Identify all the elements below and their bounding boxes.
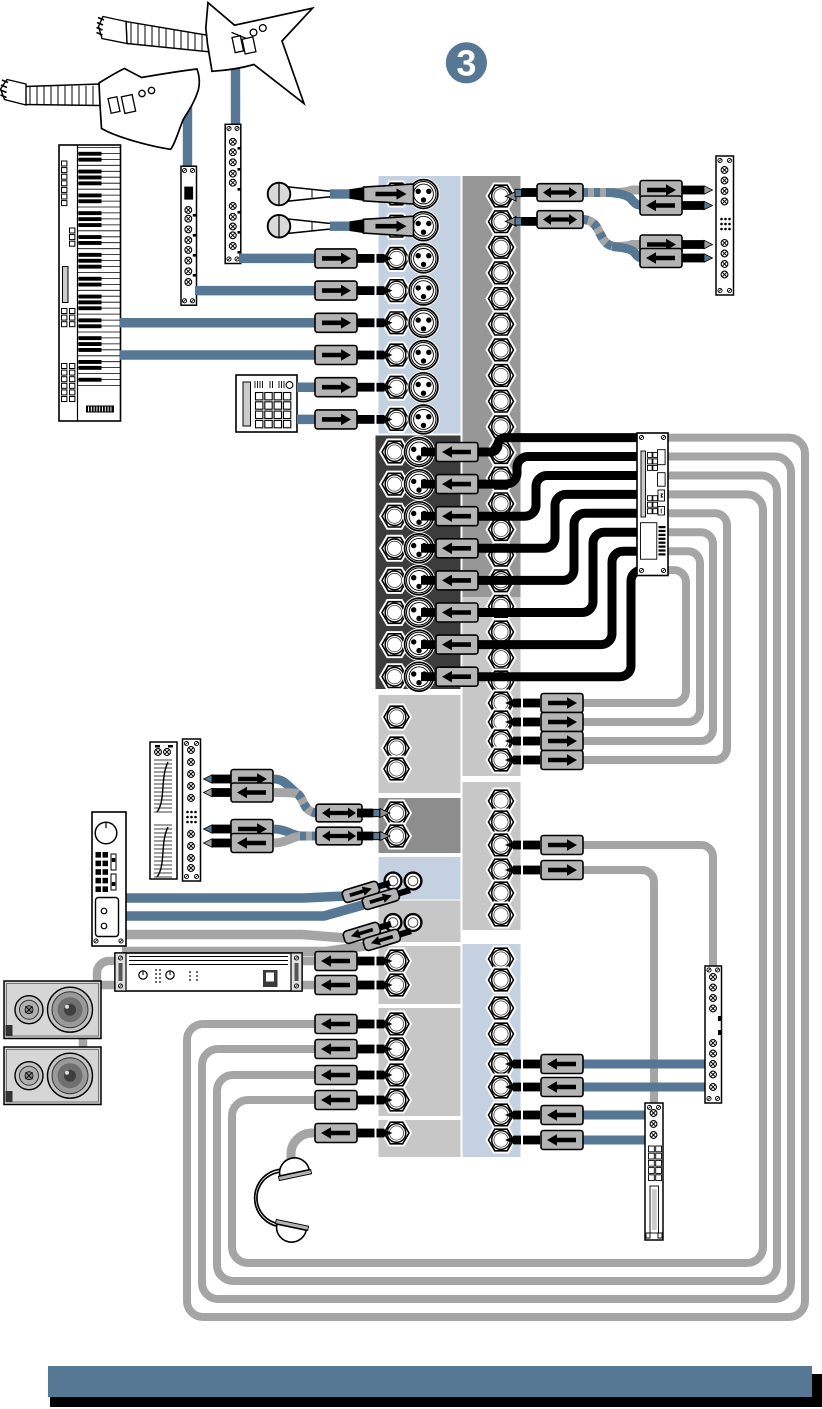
guitar effects rack unit 1 (for star guitar)	[225, 124, 241, 263]
mixer right column: channel line inputs (gray)	[463, 176, 521, 597]
studio monitor speaker 2	[4, 1047, 101, 1105]
unit 2 output cable to channel 4	[195, 286, 320, 296]
microphone 1 cable and XLR connector	[330, 189, 350, 198]
power amplifier (rack)	[115, 953, 302, 991]
patchbay send/return plug pair row 1	[681, 186, 705, 195]
main out jacks	[381, 948, 412, 975]
submaster output cables (blue) to outboard	[582, 1064, 706, 1140]
rack compressor unit (knobs)	[183, 739, 201, 881]
control room out jacks	[381, 1011, 412, 1038]
aux return jacks (left column light gray)	[381, 704, 412, 731]
main out cables to power amp	[83, 961, 318, 1048]
graphic EQ outboard unit (right, bottom)	[645, 1103, 663, 1240]
channel line input jacks (right gray column)	[485, 183, 516, 210]
unit 1 output cable to channel 3	[239, 254, 320, 264]
keyboard output cables	[120, 318, 318, 328]
MIDI keyboard	[59, 145, 121, 421]
EQ send/return plugs group A	[212, 775, 236, 784]
mixer left column: main out section	[379, 946, 461, 1004]
channel 1-2 line in to patchbay: jack stubs	[506, 192, 517, 202]
gray return cables: multitrack outputs to tape return jacks (long loop)	[187, 438, 805, 1317]
monitor patchbay (right, below)	[705, 966, 722, 1103]
mixer right column: submaster jacks (light blue)	[463, 944, 521, 1157]
gray cables: multitrack outputs 5-8 to tape send plugs	[582, 570, 686, 703]
mixer left column: mic/line input section (light blue)	[379, 176, 461, 434]
footer bar	[50, 1374, 822, 1407]
main out plugs	[315, 952, 393, 971]
RCA plugs tape out	[342, 918, 393, 945]
RCA plugs tape in	[341, 877, 392, 904]
tape output jacks and XLRs 1-8 (dark section)	[379, 439, 410, 466]
tape deck RCA cables (gray, mixer tape out to deck)	[122, 935, 365, 952]
tape output plugs (dark section)	[421, 443, 478, 462]
drum machine	[236, 375, 297, 432]
guitar effects rack unit 2 (for explorer guitar)	[181, 166, 197, 305]
tape send plugs (right column)	[505, 694, 583, 713]
EQ send/return plugs group B	[212, 825, 236, 834]
electric guitar 1 (star shape)	[99, 3, 313, 104]
phones plug	[315, 1124, 393, 1143]
multitrack recorder (rack unit)	[637, 433, 668, 576]
insert cable connectors at channel 1-2 jacks	[537, 184, 583, 202]
mixer left column: light gray jack section	[379, 695, 461, 793]
tape deck RCA cables (blue, deck outputs to mixer tape in)	[122, 896, 363, 916]
aux send plugs	[505, 836, 583, 855]
guitar 2 cable	[183, 105, 192, 166]
headphones	[255, 1169, 289, 1227]
svg-text:3: 3	[456, 43, 476, 84]
microphone 1	[268, 183, 332, 206]
tape out RCA jacks	[383, 913, 402, 932]
cassette tape deck	[92, 812, 126, 946]
mixer left column: phones section	[379, 1120, 461, 1157]
rack EQ unit (diagonal sliders)	[150, 742, 177, 879]
line input plugs channels 3-8	[315, 249, 393, 268]
black cables: tape outputs to multitrack inputs	[477, 438, 642, 677]
electric guitar 2 (explorer shape)	[1, 69, 200, 150]
tape in RCA jacks	[383, 871, 402, 890]
mixer left column: tape output section (dark)	[376, 436, 461, 690]
microphone 2	[268, 215, 332, 238]
mixer right column: tape send jacks (light gray)	[463, 597, 521, 776]
headphone cable	[291, 1133, 320, 1164]
mixer left column: control room / monitor section	[379, 1008, 461, 1116]
mixer left column: tape in RCA section (light blue)	[379, 857, 461, 900]
submaster jacks (right column blue)	[485, 946, 516, 973]
aux send cables to outboard gear	[582, 845, 713, 966]
channel insert jacks (medium gray section)	[381, 800, 412, 827]
patchbay / direct box (top right)	[716, 156, 734, 295]
striped insert cable row 1	[582, 188, 614, 197]
microphone 2 cable and XLR connector	[330, 222, 350, 231]
guitar 1 cable	[231, 58, 240, 124]
hookup number 3 badge	[446, 42, 487, 83]
striped insert cable row 2	[582, 220, 616, 247]
channel input jacks and XLRs 1-8 (left column)	[381, 181, 412, 208]
mixer left column: insert section (medium gray)	[379, 798, 461, 853]
insert connectors at mixer	[316, 804, 362, 822]
studio monitor speaker 1	[4, 981, 101, 1039]
aux jacks (right column)	[485, 788, 516, 815]
control room output plugs	[315, 1015, 393, 1034]
insert cables: mixer inserts to EQ rack	[274, 779, 297, 794]
patchbay send/return plug pair row 2	[681, 240, 705, 249]
mixer right column: aux send/return jacks (light gray)	[463, 782, 521, 930]
tape send jacks (right column)	[485, 669, 516, 696]
submaster plugs	[505, 1055, 583, 1074]
drum machine output cables	[297, 382, 320, 392]
mixer left column: tape out RCA section	[379, 901, 461, 943]
phones jack	[381, 1120, 412, 1147]
